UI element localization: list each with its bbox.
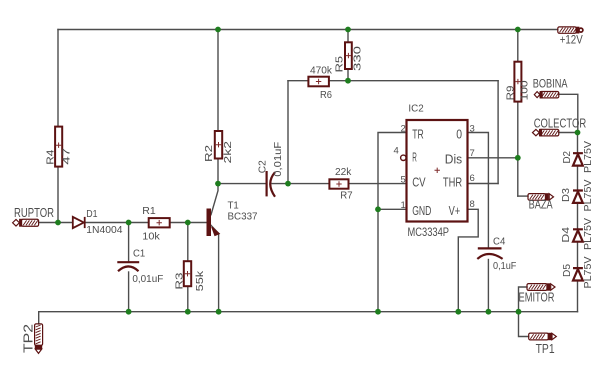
wire diode column seg2 [577, 166, 579, 190]
svg-text:D2: D2 [561, 151, 573, 164]
svg-text:8: 8 [470, 199, 475, 210]
svg-text:0,01uF: 0,01uF [272, 142, 284, 177]
node DIS [515, 155, 521, 161]
svg-text:4: 4 [394, 146, 399, 157]
wire diode column seg1 [577, 133, 579, 153]
wire C4 top branch [487, 184, 489, 249]
diode D1 [73, 217, 85, 228]
wire O pin3 right then down to THR wire [468, 133, 489, 184]
svg-text:V+: V+ [449, 203, 461, 218]
node rail C1 [126, 309, 132, 315]
wire TP1 stub [519, 312, 529, 337]
wire COLECTOR to diode column [559, 132, 578, 134]
wire D1 to R1 [86, 222, 149, 224]
resistor R4 body [55, 127, 62, 167]
svg-text:BC337: BC337 [228, 211, 258, 223]
svg-text:47: 47 [60, 148, 72, 165]
wire EMITOR stub [519, 287, 528, 312]
svg-text:C4: C4 [493, 235, 505, 247]
svg-text:0: 0 [456, 126, 462, 141]
node collector [215, 181, 221, 187]
resistor R2 body [215, 131, 222, 159]
svg-text:R5: R5 [334, 56, 346, 73]
node top R5 [345, 27, 351, 33]
wire THR pin stub [468, 183, 499, 185]
svg-text:PL75V: PL75V [582, 141, 594, 173]
connector EMITOR pad [527, 284, 555, 291]
capacitor C1 [117, 262, 139, 271]
svg-text:R3: R3 [174, 272, 186, 289]
svg-text:MC3334P: MC3334P [408, 227, 450, 239]
wire row2 left segment to R6 [288, 80, 308, 82]
wire bottom rail [39, 311, 578, 313]
svg-text:PL75V: PL75V [582, 218, 594, 250]
svg-text:R4: R4 [44, 150, 56, 165]
capacitor C2 [267, 171, 275, 197]
wire top rail [58, 29, 558, 31]
svg-text:EMITOR: EMITOR [519, 290, 555, 305]
svg-text:10k: 10k [142, 231, 160, 243]
connector BAZA pad [528, 194, 554, 201]
svg-text:7: 7 [470, 148, 475, 159]
origin cross R1 [157, 220, 162, 225]
svg-text:PL75V: PL75V [582, 180, 594, 212]
wire R5 bottom to node [347, 69, 349, 81]
svg-text:T1: T1 [228, 199, 239, 211]
svg-text:THR: THR [443, 174, 462, 189]
wire diode column seg5 to rail [577, 282, 579, 312]
transistor T1 [207, 209, 220, 237]
diode D2 [573, 153, 583, 165]
wire TP2 drop [38, 312, 40, 324]
origin cross R6 [316, 79, 321, 84]
svg-text:R1: R1 [142, 205, 156, 217]
wire collector node to C2 [218, 183, 266, 185]
svg-text:Dis: Dis [445, 151, 463, 166]
wire R1 to base [170, 222, 207, 224]
origin cross R3 [185, 271, 190, 276]
svg-text:GND: GND [412, 203, 431, 218]
wire DIS pin to R9 column [468, 157, 518, 159]
svg-text:CV: CV [412, 174, 426, 189]
origin cross R7 [336, 181, 341, 186]
node rail C4 [486, 309, 492, 315]
wire C4 bottom branch [487, 260, 489, 312]
origin cross R2 [216, 142, 221, 147]
node top R2 [215, 27, 221, 33]
svg-text:RUPTOR: RUPTOR [14, 206, 54, 220]
node GND [375, 206, 381, 212]
svg-text:PL75V: PL75V [582, 257, 594, 289]
wire R3 bottom branch [187, 286, 189, 312]
wire R9 bottom down to BAZA corner [517, 102, 519, 197]
svg-text:22k: 22k [335, 166, 352, 178]
node rail TR [375, 309, 381, 315]
svg-text:TP2: TP2 [21, 324, 36, 353]
wire emitter column [218, 234, 220, 312]
node C2-R6 [285, 181, 291, 187]
svg-text:D4: D4 [560, 227, 572, 243]
wire row2 R6 right to THR riser [329, 80, 498, 82]
connector TP2 pad [35, 324, 43, 354]
origin cross R4 [56, 143, 61, 148]
capacitor C4 [477, 248, 502, 259]
wire GND pin stub [378, 208, 407, 210]
node R1-R3 [185, 220, 191, 226]
svg-text:C2: C2 [257, 160, 269, 173]
svg-text:TP1: TP1 [536, 341, 555, 356]
connector +12V pad [558, 27, 583, 33]
wire R2 bottom to collector node [217, 159, 219, 184]
connector RUPTOR pad [13, 219, 39, 226]
svg-text:R9: R9 [504, 85, 516, 100]
connector BOBINA pad [534, 92, 559, 98]
diode D3 [573, 191, 583, 203]
wire R3 top branch [187, 223, 189, 262]
wire R7 to CV pin [349, 183, 407, 185]
svg-text:R7: R7 [340, 189, 352, 201]
node R5 bottom [345, 78, 351, 84]
origin cross R5 [346, 53, 351, 58]
svg-text:100: 100 [519, 80, 531, 100]
svg-text:BOBINA: BOBINA [533, 79, 568, 91]
wire T1 collector lead [211, 184, 218, 215]
wire C2 to R7 [272, 183, 329, 185]
svg-text:3: 3 [470, 124, 475, 135]
node top R9 [515, 27, 521, 33]
node D1-C1 [126, 220, 132, 226]
svg-text:R6: R6 [320, 89, 332, 101]
svg-text:6: 6 [470, 173, 475, 184]
wire BOBINA to diode column [559, 94, 578, 132]
wire to BAZA connector [518, 195, 528, 197]
wire THR riser [497, 81, 499, 184]
wire C1 bottom branch [128, 272, 130, 312]
node rail R3 [185, 309, 191, 315]
svg-text:D5: D5 [561, 264, 573, 277]
op-amp IC2 box [407, 120, 468, 222]
svg-text:COLECTOR: COLECTOR [534, 115, 587, 130]
svg-text:5: 5 [401, 175, 406, 186]
svg-text:2k2: 2k2 [222, 141, 234, 164]
svg-text:BAZA: BAZA [529, 199, 553, 211]
svg-text:C1: C1 [133, 247, 145, 259]
svg-text:D3: D3 [560, 188, 572, 202]
wire diode column seg4 [577, 243, 579, 269]
diode D4 [573, 229, 583, 241]
svg-text:D1: D1 [86, 208, 97, 220]
svg-text:1: 1 [401, 200, 406, 211]
wire C2 branch down [287, 81, 289, 184]
wire V+ pin jog down to bottom rail [458, 209, 478, 311]
wire R9 column top [517, 30, 519, 62]
resistor R5 body [345, 42, 352, 69]
origin cross IC2 [435, 168, 440, 173]
wire T1 emitter lead [211, 225, 219, 233]
wire RUPTOR to D1 [39, 222, 73, 224]
node COLECTOR [575, 130, 581, 136]
svg-text:R2: R2 [203, 145, 215, 162]
wire left column lower (R4 to RUPTOR node) [57, 167, 59, 223]
wire C1 top branch [128, 223, 130, 262]
node rail V+ [455, 309, 461, 315]
svg-text:1N4004: 1N4004 [86, 224, 122, 236]
resistor R9 body [514, 62, 521, 102]
svg-text:55k: 55k [194, 270, 206, 292]
diode D5 [573, 268, 583, 280]
wire diode column seg3 [577, 204, 579, 229]
svg-text:+12V: +12V [560, 34, 583, 46]
connector COLECTOR pad [533, 129, 559, 136]
resistor R6 body [308, 77, 329, 87]
resistor R1 body [149, 218, 170, 227]
node rail EMITOR [516, 309, 522, 315]
wire R5 column top [347, 30, 349, 43]
wire R2 column top [217, 30, 219, 132]
pin 4 inversion bubble [401, 155, 406, 160]
resistor R3 body [184, 261, 191, 286]
svg-text:0,01uF: 0,01uF [132, 273, 163, 285]
svg-text:R: R [412, 149, 417, 164]
connector TP1 pad [529, 333, 557, 340]
svg-text:330: 330 [352, 46, 364, 71]
node RUPTOR [55, 220, 61, 226]
svg-text:2: 2 [401, 124, 406, 135]
svg-text:470k: 470k [310, 65, 333, 77]
svg-text:0,1uF: 0,1uF [493, 260, 516, 272]
wire TR pin left then down to bottom rail [378, 133, 407, 312]
resistor R7 body [329, 179, 348, 188]
node rail emitter [216, 309, 222, 315]
svg-text:IC2: IC2 [408, 103, 423, 115]
wire left column upper (to R4) [57, 30, 59, 127]
svg-text:TR: TR [412, 126, 424, 141]
origin cross R9 [515, 79, 520, 84]
